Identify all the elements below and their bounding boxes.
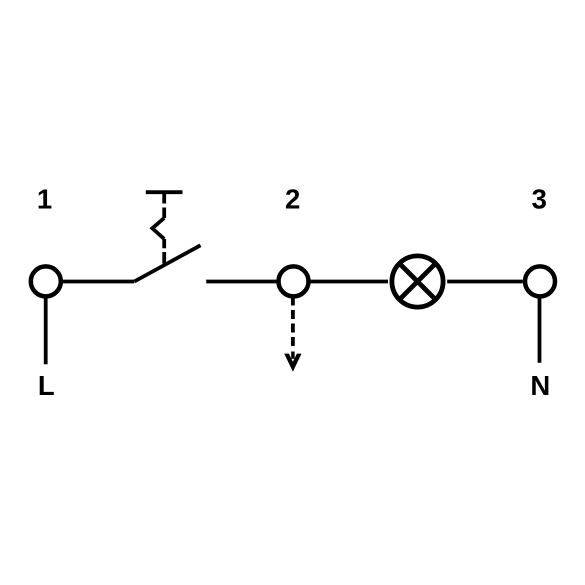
svg-text:1: 1	[37, 184, 52, 215]
switch S1 lever	[134, 245, 200, 281]
switch actuator spring zigzag	[152, 218, 164, 239]
switch actuator stem stub	[162, 192, 166, 203]
svg-text:N: N	[530, 370, 550, 401]
switch actuator T-bar	[146, 190, 183, 194]
svg-text:2: 2	[285, 184, 300, 215]
lamp E1 cross diagonal 2	[399, 263, 435, 299]
wire node1 to switch pivot	[63, 280, 135, 284]
wire node3 to N	[538, 298, 542, 362]
wire node1 to L	[44, 298, 48, 364]
lamp E1 circle	[392, 256, 443, 307]
svg-text:3: 3	[532, 184, 547, 215]
actuation arrow dashed stem	[291, 298, 295, 359]
lamp E1 cross diagonal 1	[399, 263, 435, 299]
terminal node 3	[525, 266, 555, 296]
terminal node 1	[31, 266, 61, 296]
terminal node 2	[279, 266, 309, 296]
switch actuator stem dash	[162, 208, 166, 219]
svg-text:L: L	[38, 370, 55, 401]
wire lamp to node3	[447, 280, 523, 284]
switch actuator stem dash	[162, 239, 166, 248]
wire node2 to lamp	[310, 280, 389, 284]
switch actuator stem dash to lever	[162, 252, 166, 264]
actuation arrow head V	[284, 354, 301, 372]
wire switch to node2	[206, 280, 277, 284]
